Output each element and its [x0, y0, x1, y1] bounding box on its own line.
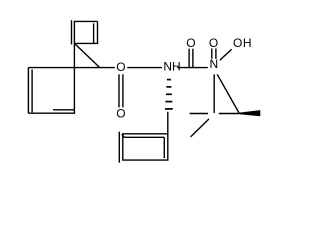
small square ring top edge	[74, 20, 98, 22]
svg-text:O: O	[116, 60, 125, 74]
diagonal bond (cyclopropane)	[75, 44, 100, 67]
small square ring bottom edge	[74, 42, 98, 44]
N-C1 vertical bond	[213, 74, 215, 113]
hashed wedge dash 5	[165, 108, 173, 110]
phenyl top edge	[122, 133, 168, 135]
big ring inner-bottom double-bond line	[53, 109, 74, 111]
small square ring right edge	[97, 21, 99, 43]
small square outer-left double-bond line	[71, 20, 73, 44]
small square left edge + vertical bond + big ring right edge	[73, 21, 75, 113]
svg-text:NH: NH	[163, 59, 180, 73]
svg-text:OH: OH	[233, 36, 252, 50]
N-OH bond	[220, 49, 232, 60]
hashed wedge dash 1	[167, 79, 171, 81]
big ring top edge + bond to O	[28, 67, 114, 69]
svg-text:O: O	[186, 36, 195, 50]
gem base bond right segment	[219, 113, 240, 115]
big ring left edge	[27, 68, 29, 114]
phenyl left edge	[122, 134, 124, 160]
carbonyl C=O double bond lines	[188, 49, 190, 67]
gem base bond left segment	[190, 113, 208, 115]
bond NH to carbonyl C to N	[177, 67, 208, 69]
phenyl inner-top double-bond line	[124, 136, 164, 138]
phenyl bottom edge	[122, 159, 168, 161]
svg-text:N: N	[209, 57, 218, 71]
methyl wedge bond	[239, 110, 260, 116]
big ring inner-left double-bond line	[31, 69, 33, 112]
hashed wedge dash 4	[165, 101, 172, 103]
bond to phenyl + phenyl right edge	[167, 112, 169, 160]
N=O double bond lines	[211, 48, 213, 58]
phenyl corner tick	[122, 134, 125, 137]
big ring bottom edge	[28, 112, 75, 114]
svg-text:O: O	[116, 107, 125, 121]
N-C2 diagonal bond	[217, 74, 239, 113]
ester C=O double bond lines	[118, 74, 120, 107]
hashed wedge dash 2	[166, 86, 171, 88]
methyl diagonal bond	[191, 119, 209, 137]
phenyl outer-left double-bond line	[118, 132, 120, 163]
svg-text:O: O	[209, 36, 218, 50]
small square inner-right double-bond line	[93, 23, 95, 43]
phenyl inner-right double-bond line	[163, 137, 165, 158]
hashed wedge dash 3	[166, 93, 172, 95]
bond O to NH	[127, 67, 162, 69]
